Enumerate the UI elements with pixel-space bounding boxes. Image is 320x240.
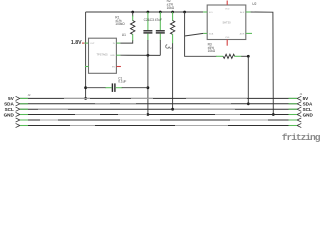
wire: U1 GND pin stub (green)	[116, 54, 120, 56]
wire: SCL bus line	[20, 108, 297, 110]
wire: U2 SCL pin stub (green)	[203, 11, 207, 13]
svg-text:J1: J1	[299, 92, 302, 96]
svg-text:ALR: ALR	[240, 11, 245, 14]
node: GND bus junction at x147.9	[147, 113, 150, 116]
node: rail junction at R2	[171, 11, 174, 14]
node: GND bus junction at x273.3	[272, 113, 275, 116]
connector J2 pin SDA (left arrow)	[16, 102, 20, 106]
svg-text:GND: GND	[303, 112, 314, 117]
capacitor C3 47uF	[156, 12, 165, 55]
svg-text:C2&C3 47uF: C2&C3 47uF	[144, 18, 162, 22]
wire: U1 OUT pin stub (green)	[84, 42, 88, 44]
wire: GND vertical (C2 node down to GND bus)	[147, 55, 149, 114]
node: 5V bus junction at x85.6	[84, 97, 87, 100]
wire: U1 EN red stub (unconnected)	[116, 66, 121, 68]
svg-text:fritzing: fritzing	[282, 132, 320, 143]
capacitor C1 0.1uF (horizontal)	[86, 83, 148, 92]
wire: U1 IN pin stub (green)	[116, 42, 120, 44]
resistor R2 10k pull-up (vertical)	[170, 12, 174, 44]
connector J1 pin SDA (right arrow)	[297, 102, 301, 106]
wire: U1 left-bottom pin stub to vertical (green)	[85, 66, 89, 68]
wire: bus line 6	[20, 125, 297, 127]
node: R3 junction	[247, 55, 250, 58]
wire: vertical from rail to R3 row	[185, 12, 217, 56]
svg-text:GND: GND	[110, 55, 115, 57]
node: rail junction at R3 drop	[183, 11, 186, 14]
wire: vertical down to SDA bus	[247, 56, 249, 104]
connector J1 pin GND (right arrow)	[297, 112, 301, 116]
wire: U2 ALERT to right vertical	[251, 12, 274, 115]
svg-text:5V: 5V	[8, 96, 15, 101]
wire: U2 ALERT pin stub (green)	[246, 11, 251, 13]
wire: left vertical from rail down to 5V bus	[85, 12, 87, 98]
connector J2 pin SCL (left arrow)	[16, 107, 20, 111]
wire: U2 VSS red stub	[226, 40, 228, 46]
wire: U1 GND to C2/C3 bottoms	[120, 54, 160, 56]
svg-text:GND: GND	[4, 112, 15, 117]
capacitor C2 47uF	[143, 12, 152, 55]
svg-text:ADR: ADR	[240, 32, 245, 35]
connector J1 pin SCL (right arrow)	[297, 107, 301, 111]
wire: bus line 5	[20, 119, 297, 121]
wire: U2 ADDR pin stub (green, unconnected)	[246, 32, 252, 34]
svg-text:U2: U2	[252, 2, 256, 6]
wire: U2 SDA pin stub (green)	[203, 32, 207, 34]
svg-text:VSS: VSS	[225, 37, 230, 39]
node: C1 line junction right	[147, 86, 150, 89]
wire: U1 IN to R1 bottom	[120, 40, 132, 43]
wire: R2 down to SCL bus	[172, 43, 174, 109]
connector J1 pin 5V (right arrow)	[297, 96, 301, 100]
node: SCL junction	[171, 108, 174, 111]
svg-text:J2: J2	[28, 93, 31, 97]
label: stray glyph (uF squiggle)	[166, 45, 172, 49]
svg-text:OUT: OUT	[90, 43, 95, 45]
svg-text:SHT30: SHT30	[222, 20, 231, 24]
svg-text:SCL: SCL	[303, 107, 312, 112]
svg-text:VDD: VDD	[225, 9, 230, 11]
svg-text:SDA: SDA	[4, 102, 14, 107]
svg-text:U1: U1	[122, 33, 126, 37]
resistor R1 100k (vertical)	[131, 12, 135, 41]
svg-text:10kΩ: 10kΩ	[208, 49, 216, 53]
resistor R3 10k (horizontal)	[216, 54, 242, 58]
node: rail junction at C2	[147, 11, 150, 14]
IC U1 (TPS7A05 regulator)	[89, 38, 117, 73]
svg-text:SCL: SCL	[5, 107, 14, 112]
node: rail junction at C3	[159, 11, 162, 14]
svg-text:EN: EN	[112, 67, 115, 69]
wire: 1.8V to U1 OUT (red)	[82, 42, 84, 44]
svg-text:SDA: SDA	[303, 102, 313, 107]
wire: GND bus line	[20, 114, 297, 116]
connector J2 pin 6 (left arrow)	[16, 123, 20, 127]
node: C1 line junction left	[84, 86, 87, 89]
node: GND junction under C2	[147, 54, 150, 57]
connector J1 pin 6 (right arrow)	[297, 123, 301, 127]
connector J1 pin 5 (right arrow)	[297, 118, 301, 122]
node: rail junction at R1	[131, 11, 134, 14]
node: SDA bus junction	[247, 102, 250, 105]
svg-text:5V: 5V	[303, 96, 310, 101]
connector J2 pin 5V (left arrow)	[16, 96, 20, 100]
wire: 5V bus line	[20, 97, 297, 99]
connector J2 pin 5 (left arrow)	[16, 118, 20, 122]
svg-text:1.8V: 1.8V	[71, 40, 82, 46]
wire: R3 right to SDA vertical	[241, 55, 248, 57]
wire: U2 VDD red stub	[226, 1, 228, 6]
wire: U2 SDA pin slant to R3 vertical	[185, 33, 204, 36]
svg-text:10kΩ: 10kΩ	[167, 6, 175, 10]
svg-text:SDA: SDA	[209, 32, 214, 35]
svg-text:0.1uF: 0.1uF	[118, 79, 126, 83]
wire: top supply rail	[86, 11, 204, 13]
wire: SDA bus line	[20, 103, 297, 105]
wire: rail stub into U2 pin (green)	[203, 11, 207, 13]
svg-text:TPS7A05: TPS7A05	[96, 53, 108, 57]
connector J2 pin GND (left arrow)	[16, 112, 20, 116]
svg-text:100kΩ: 100kΩ	[115, 22, 125, 26]
IC U2 (SHT30 sensor)	[207, 5, 246, 40]
